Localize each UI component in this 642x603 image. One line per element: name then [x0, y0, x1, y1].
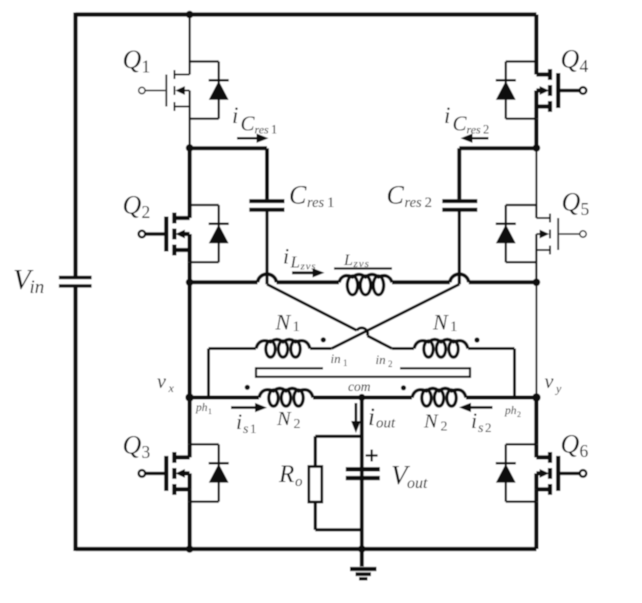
svg-text:Q: Q — [562, 188, 581, 217]
svg-text:v: v — [157, 371, 166, 393]
svg-text:N: N — [423, 411, 439, 433]
svg-text:1: 1 — [208, 407, 212, 416]
svg-text:res: res — [405, 195, 423, 211]
svg-text:Q: Q — [123, 45, 142, 74]
svg-text:in: in — [331, 351, 341, 366]
svg-text:L: L — [290, 253, 300, 272]
svg-text:zvs: zvs — [353, 258, 370, 270]
svg-text:res: res — [307, 195, 325, 211]
svg-text:2: 2 — [294, 417, 301, 432]
svg-text:1: 1 — [293, 319, 301, 335]
svg-text:i: i — [368, 404, 375, 431]
svg-text:i: i — [283, 244, 289, 269]
svg-text:Q: Q — [123, 191, 142, 220]
svg-text:4: 4 — [580, 56, 589, 76]
svg-text:1: 1 — [343, 358, 348, 368]
svg-text:Q: Q — [561, 430, 580, 459]
svg-text:i: i — [232, 103, 238, 128]
svg-text:L: L — [343, 252, 353, 269]
svg-text:1: 1 — [250, 421, 257, 436]
svg-text:5: 5 — [581, 199, 590, 219]
svg-text:2: 2 — [517, 410, 521, 419]
svg-text:1: 1 — [450, 319, 458, 335]
svg-text:2: 2 — [388, 359, 393, 369]
svg-text:R: R — [278, 461, 294, 488]
svg-text:com: com — [348, 379, 371, 394]
svg-text:3: 3 — [142, 442, 151, 462]
svg-text:res: res — [467, 123, 482, 137]
svg-text:i: i — [471, 408, 477, 433]
svg-text:N: N — [275, 310, 292, 335]
svg-text:C: C — [289, 181, 307, 210]
svg-text:out: out — [407, 475, 428, 492]
svg-text:i: i — [236, 409, 242, 434]
svg-text:2: 2 — [485, 420, 492, 435]
svg-text:1: 1 — [142, 57, 151, 77]
svg-text:N: N — [432, 310, 449, 335]
svg-text:i: i — [444, 103, 450, 128]
svg-text:2: 2 — [483, 123, 489, 137]
svg-text:in: in — [30, 277, 45, 298]
svg-text:res: res — [255, 123, 270, 137]
svg-text:s: s — [243, 422, 249, 437]
svg-text:N: N — [276, 408, 292, 430]
svg-text:x: x — [168, 381, 175, 395]
svg-text:C: C — [453, 112, 468, 136]
svg-text:2: 2 — [441, 420, 448, 435]
svg-text:2: 2 — [142, 202, 151, 222]
svg-text:Q: Q — [561, 45, 580, 74]
svg-text:ph: ph — [195, 402, 208, 414]
svg-text:1: 1 — [271, 123, 277, 137]
svg-text:zvs: zvs — [300, 261, 317, 273]
svg-text:C: C — [241, 112, 256, 136]
svg-text:Q: Q — [123, 431, 142, 460]
svg-text:s: s — [478, 421, 484, 436]
svg-text:o: o — [295, 474, 303, 490]
svg-text:C: C — [387, 181, 405, 210]
svg-text:v: v — [545, 371, 554, 393]
svg-text:ph: ph — [504, 405, 517, 417]
svg-text:out: out — [376, 416, 396, 432]
svg-text:y: y — [555, 382, 562, 396]
svg-text:1: 1 — [327, 195, 335, 211]
svg-text:in: in — [376, 352, 386, 367]
svg-text:2: 2 — [425, 195, 433, 211]
svg-text:6: 6 — [580, 441, 589, 461]
